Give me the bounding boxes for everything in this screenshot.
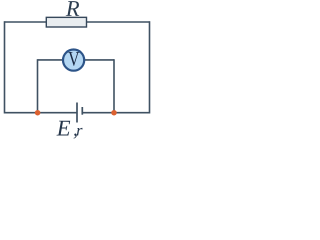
wire right vertical — [149, 21, 151, 113]
wire inner-left vertical — [37, 59, 39, 112]
wire voltmeter-left segment — [38, 59, 65, 61]
junction node right — [111, 110, 117, 116]
resistor R1 body — [46, 17, 86, 27]
wire top-left segment — [5, 21, 48, 23]
label R — [66, 1, 80, 16]
label comma — [74, 134, 77, 139]
label r — [77, 128, 83, 136]
wire voltmeter-right segment — [83, 59, 114, 61]
junction node left — [35, 110, 41, 116]
wire left vertical — [4, 21, 6, 113]
battery E long plate — [76, 103, 78, 123]
label E — [56, 121, 70, 136]
wire bottom-left segment — [5, 112, 77, 114]
wire top-right segment — [86, 21, 150, 23]
voltmeter label V — [68, 52, 79, 66]
battery E short plate — [81, 107, 83, 115]
wire bottom-right segment — [82, 112, 149, 114]
voltmeter U1 circle — [63, 50, 84, 71]
wire inner-right vertical — [113, 59, 115, 112]
